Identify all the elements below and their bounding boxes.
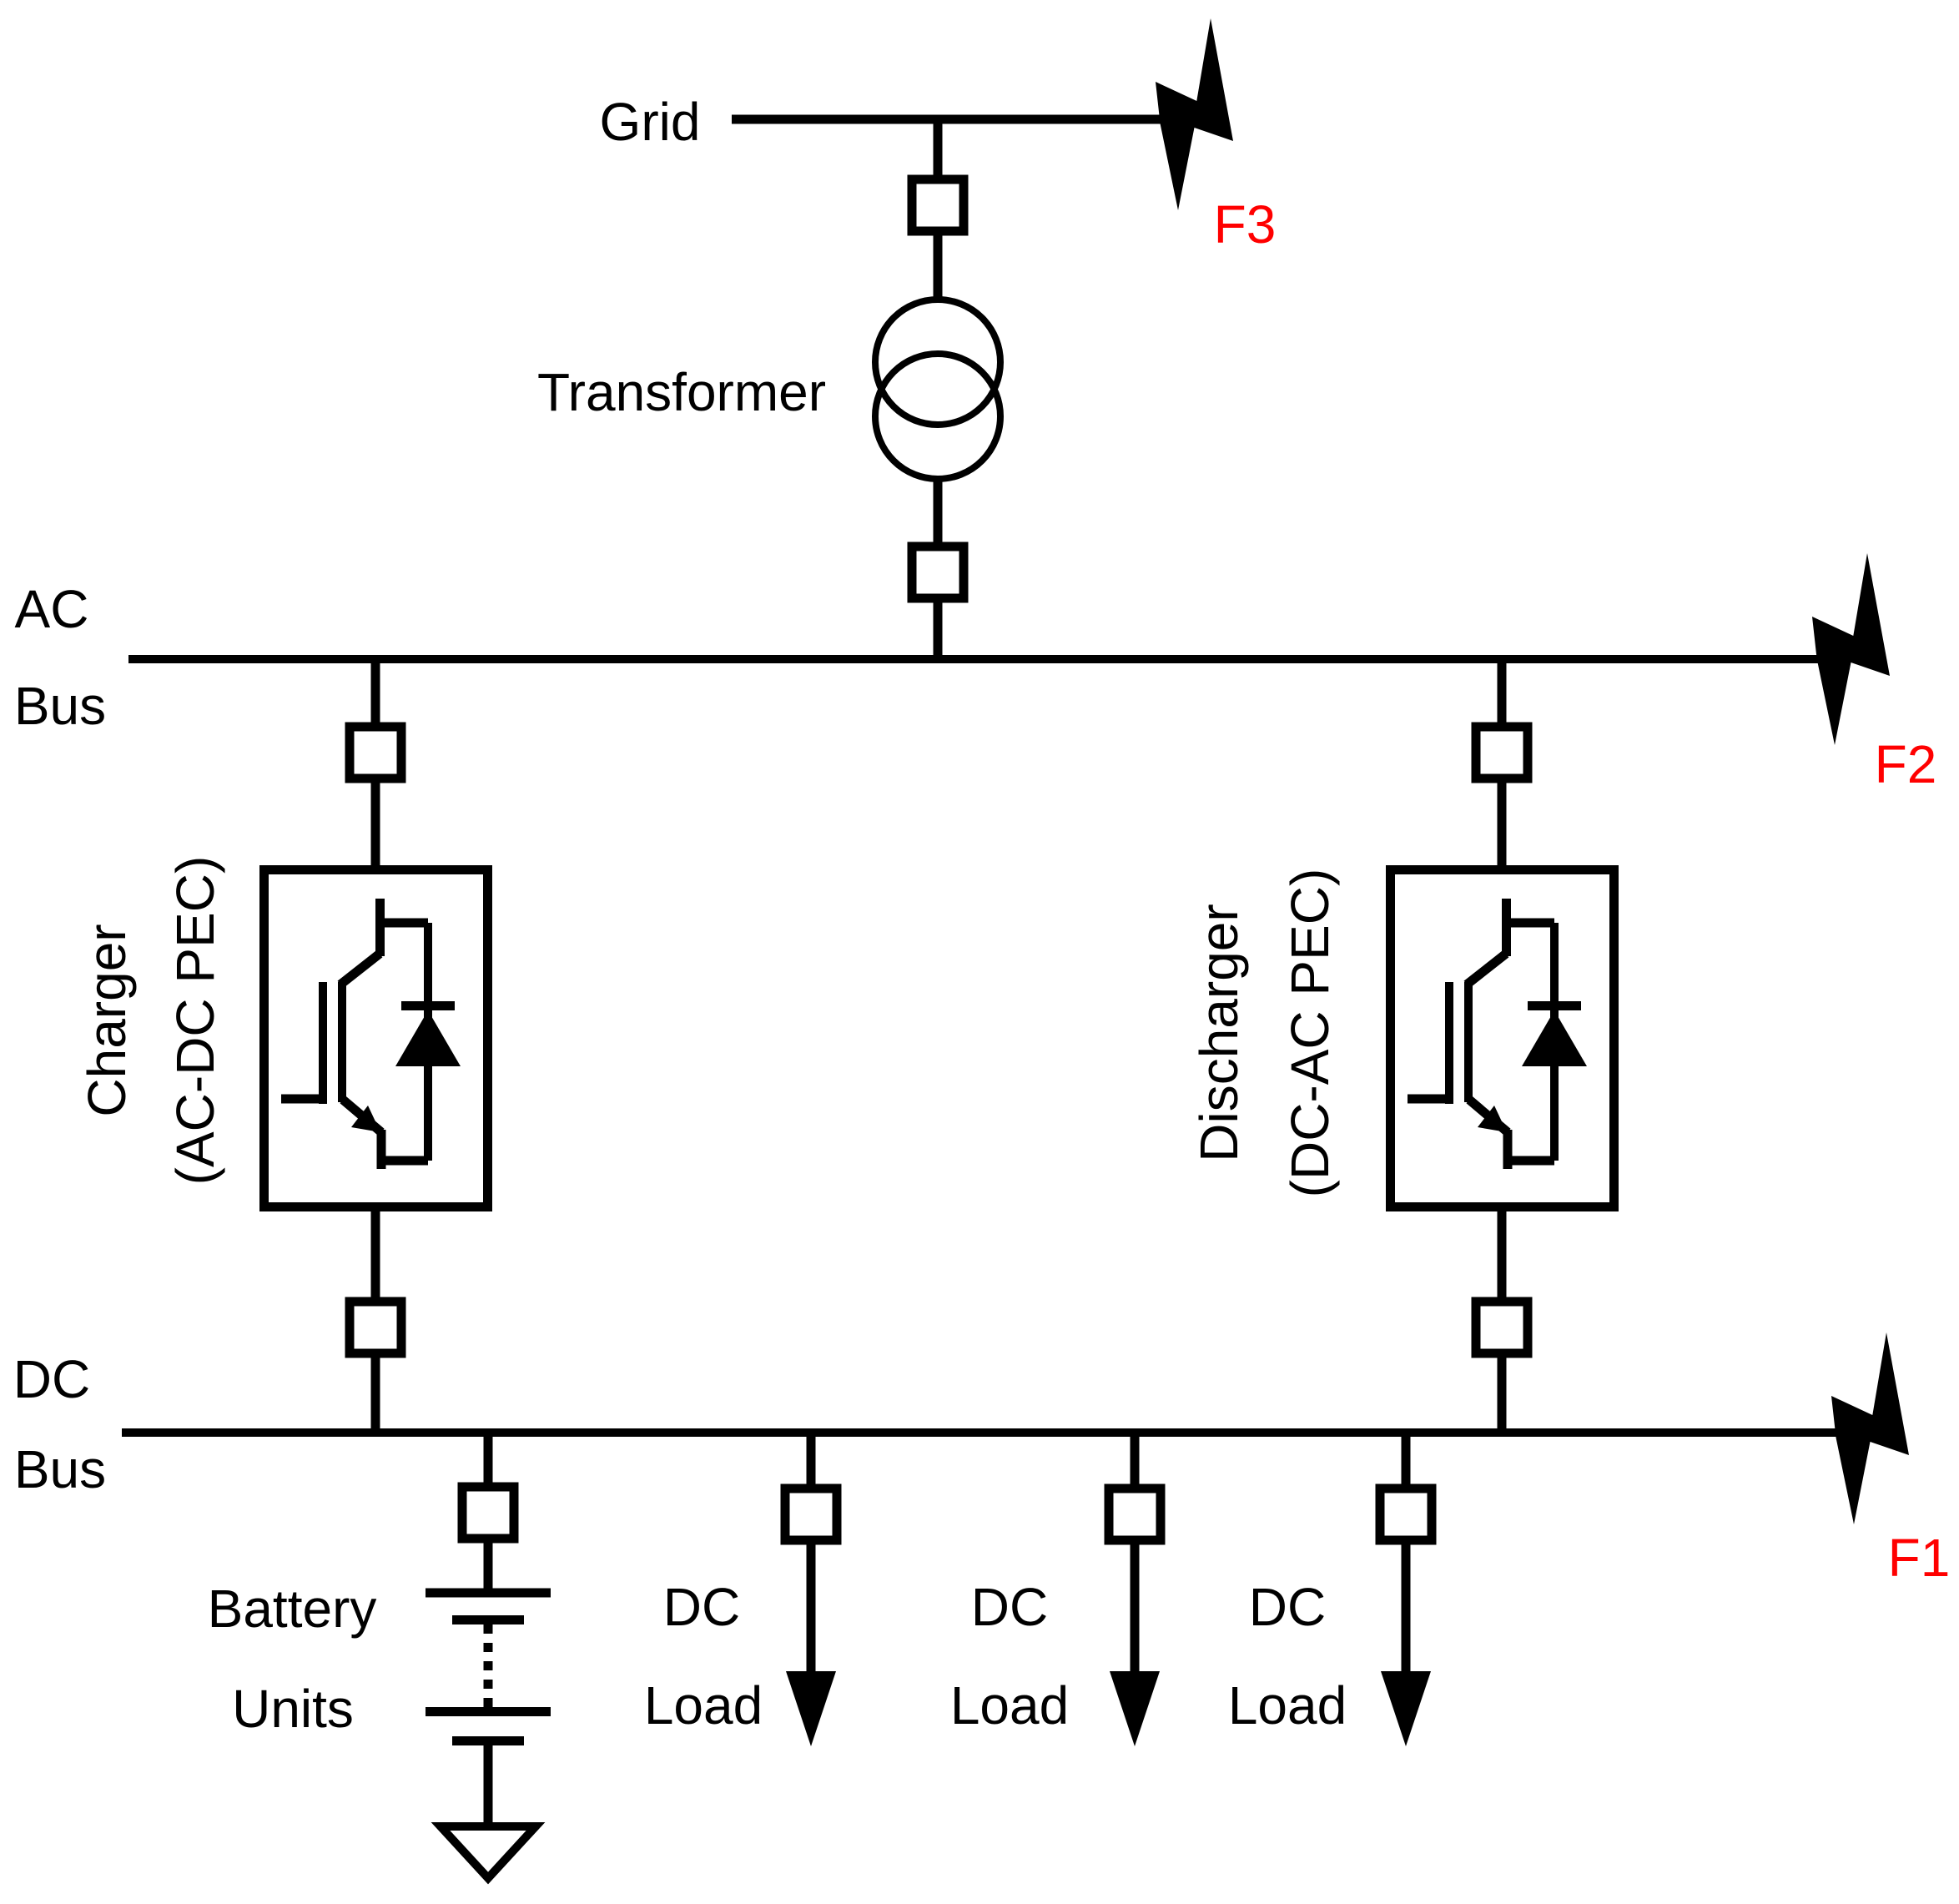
- svg-text:Grid: Grid: [600, 92, 701, 152]
- DC bus: [122, 1428, 1840, 1437]
- svg-text:AC: AC: [15, 579, 89, 639]
- breaker CB9: [1109, 1488, 1161, 1540]
- wire battery to ground: [484, 1745, 493, 1826]
- breaker CB7: [462, 1487, 514, 1539]
- fault bolt F2: [1812, 553, 1890, 745]
- breaker CB4: [350, 1302, 401, 1353]
- label DC Load 1: [644, 1577, 763, 1735]
- svg-text:Transformer: Transformer: [537, 362, 826, 422]
- svg-text:Discharger: Discharger: [1189, 904, 1249, 1161]
- transistor Q1 IGBT: [281, 899, 428, 1169]
- wire DC bus to breaker CB9 load2: [1131, 1433, 1140, 1488]
- label Charger (AC-DC PEC): [77, 856, 225, 1186]
- svg-text:Units: Units: [232, 1679, 354, 1739]
- label Battery Units: [208, 1579, 377, 1739]
- wire DC bus to breaker CB10 load3: [1402, 1433, 1411, 1488]
- svg-text:Load: Load: [1228, 1675, 1347, 1735]
- wire load1 arrow shaft: [807, 1540, 816, 1675]
- svg-text:(AC-DC PEC): (AC-DC PEC): [165, 856, 225, 1186]
- wire CB5 to discharger: [1498, 778, 1507, 869]
- wire transformer to breaker CB2: [934, 479, 943, 547]
- svg-text:(DC-AC PEC): (DC-AC PEC): [1280, 869, 1340, 1198]
- svg-text:Bus: Bus: [14, 1439, 106, 1499]
- transformer T1 secondary winding: [875, 354, 1000, 479]
- svg-text:DC: DC: [971, 1577, 1048, 1637]
- svg-text:DC: DC: [1249, 1577, 1326, 1637]
- fault bolt F3: [1156, 18, 1233, 210]
- svg-text:DC: DC: [663, 1577, 740, 1637]
- wire dashed battery series link: [484, 1624, 493, 1707]
- wire CB1 to transformer: [934, 231, 943, 302]
- load1 arrow head: [786, 1671, 836, 1746]
- label Discharger (DC-AC PEC): [1189, 869, 1340, 1198]
- breaker CB2: [912, 547, 964, 598]
- svg-text:Load: Load: [950, 1675, 1069, 1735]
- wire DC bus to breaker CB8 load1: [807, 1433, 816, 1488]
- battery BT1 cell2 positive plate: [426, 1707, 551, 1716]
- wire AC bus to breaker CB3: [371, 659, 380, 727]
- wire discharger to breaker CB6: [1498, 1207, 1507, 1302]
- wire CB6 to DC bus: [1498, 1353, 1507, 1433]
- transformer T1 primary winding: [875, 300, 1000, 425]
- fault bolt F1: [1831, 1332, 1909, 1524]
- wire load3 arrow shaft: [1402, 1540, 1411, 1675]
- wire AC bus to breaker CB5: [1498, 659, 1507, 727]
- converter block U2 discharger: [1391, 870, 1614, 1207]
- wire CB7 to battery: [484, 1539, 493, 1593]
- diode D1: [395, 923, 461, 1161]
- AC bus: [128, 655, 1823, 663]
- diode D2: [1522, 923, 1587, 1161]
- svg-text:Load: Load: [644, 1675, 763, 1735]
- svg-text:F2: F2: [1875, 734, 1937, 794]
- svg-text:F1: F1: [1888, 1528, 1951, 1588]
- label DC Load 2: [950, 1577, 1069, 1735]
- wire CB2 to AC bus: [934, 598, 943, 659]
- wire grid to breaker CB1: [934, 119, 943, 179]
- svg-text:DC: DC: [13, 1349, 90, 1409]
- svg-text:Battery: Battery: [208, 1579, 377, 1639]
- svg-text:Charger: Charger: [77, 924, 137, 1116]
- wire charger to breaker CB4: [371, 1207, 380, 1302]
- breaker CB10: [1380, 1488, 1432, 1540]
- load3 arrow head: [1381, 1671, 1431, 1746]
- breaker CB3: [350, 727, 401, 778]
- wire grid feeder horizontal: [732, 115, 1161, 124]
- breaker CB8: [785, 1488, 837, 1540]
- wire DC bus to breaker CB7 battery: [484, 1433, 493, 1487]
- breaker CB1: [912, 179, 964, 231]
- converter block U1 charger: [264, 870, 488, 1207]
- battery BT1 cell1 positive plate: [426, 1589, 551, 1598]
- label DC Bus: [13, 1349, 106, 1499]
- svg-text:F3: F3: [1214, 194, 1277, 254]
- battery BT1 cell2 negative plate: [452, 1736, 524, 1745]
- label DC Load 3: [1228, 1577, 1347, 1735]
- ground: [441, 1826, 536, 1878]
- wire CB4 to DC bus: [371, 1353, 380, 1433]
- wire CB3 to charger: [371, 778, 380, 869]
- label AC Bus: [14, 579, 106, 736]
- svg-text:Bus: Bus: [14, 676, 106, 736]
- battery BT1 cell1 negative plate: [452, 1615, 524, 1624]
- transistor Q2 IGBT: [1408, 899, 1554, 1169]
- breaker CB5: [1476, 727, 1528, 778]
- load2 arrow head: [1110, 1671, 1160, 1746]
- wire load2 arrow shaft: [1131, 1540, 1140, 1675]
- breaker CB6: [1476, 1302, 1528, 1353]
